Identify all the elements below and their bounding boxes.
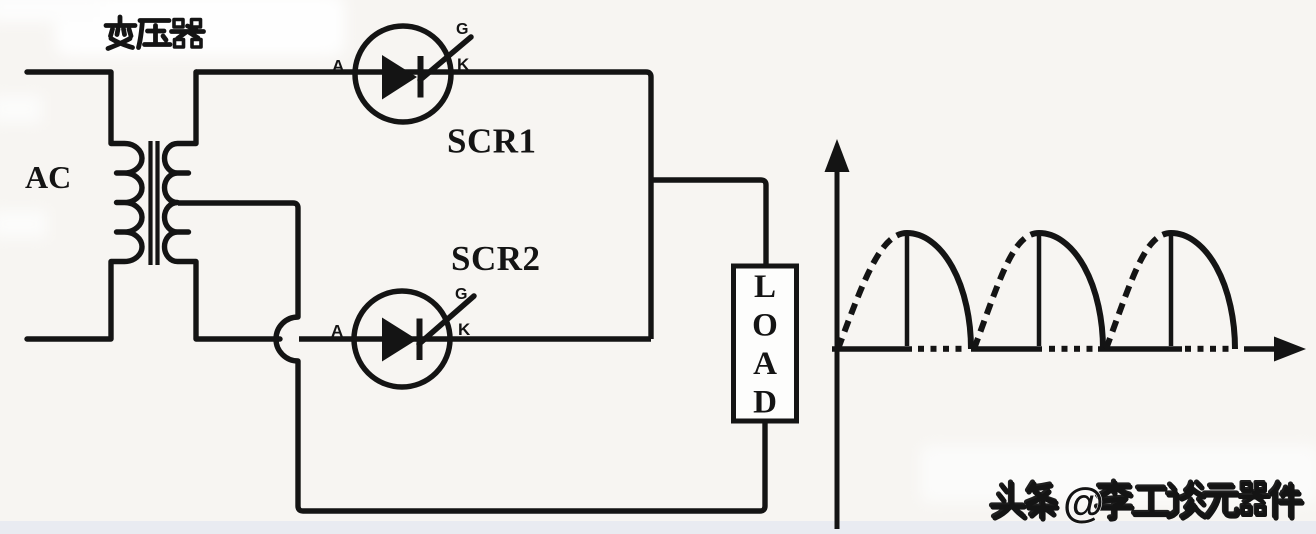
svg-text:@: @ bbox=[1063, 479, 1104, 526]
svg-text:G: G bbox=[455, 286, 467, 303]
svg-text:O: O bbox=[752, 308, 778, 344]
svg-text:K: K bbox=[457, 55, 470, 74]
svg-text:A: A bbox=[331, 322, 343, 341]
svg-text:K: K bbox=[458, 320, 471, 339]
svg-text:G: G bbox=[456, 21, 468, 38]
svg-text:D: D bbox=[753, 385, 777, 421]
svg-text:L: L bbox=[754, 269, 776, 305]
svg-text:AC: AC bbox=[25, 159, 71, 195]
svg-text:A: A bbox=[753, 346, 777, 382]
svg-text:SCR2: SCR2 bbox=[451, 239, 541, 278]
svg-text:A: A bbox=[332, 57, 344, 76]
svg-text:SCR1: SCR1 bbox=[447, 122, 537, 161]
